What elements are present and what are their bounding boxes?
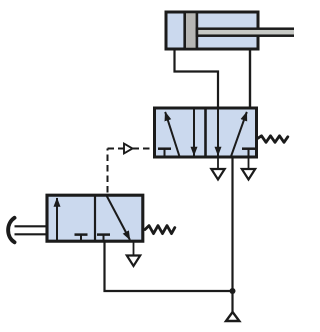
valve V1 left box blocked port T xyxy=(158,149,171,157)
compressed air source triangle xyxy=(226,312,239,321)
valve V2 left box flow arrow up xyxy=(56,198,58,242)
cylinder C1 rod xyxy=(197,29,297,36)
valve V2 position divider xyxy=(94,195,96,241)
valve V2 3/2 body xyxy=(47,195,143,241)
exhaust port 5 of valve V1 xyxy=(211,158,224,180)
cylinder C1 piston xyxy=(185,12,197,49)
valve V2 right box blocked port T xyxy=(97,235,110,242)
junction node supply xyxy=(230,288,236,294)
wire cylinder right port to valve V1 port 2 xyxy=(249,49,251,107)
pilot actuator triangle on valve V1 xyxy=(124,144,133,154)
wire pressure supply to valve V1 port 1 xyxy=(231,158,233,312)
exhaust port 3 of valve V1 xyxy=(242,158,255,180)
pushbutton actuator rod of valve V2 xyxy=(15,226,46,234)
wire cylinder left port to valve V1 port 4 xyxy=(175,49,219,107)
valve V1 position divider xyxy=(204,108,207,157)
pushbutton mushroom head of valve V2 xyxy=(8,218,14,243)
valve V1 return spring xyxy=(258,136,288,143)
valve V1 right box flow arrow diagonal up xyxy=(231,112,247,157)
valve V1 right box blocked port T xyxy=(242,149,255,157)
wire valve V2 port 1 to supply junction xyxy=(105,243,233,292)
exhaust port 3 of valve V2 xyxy=(127,243,140,267)
pilot line dashed from valve V2 output xyxy=(108,149,154,193)
valve V1 5/2 body xyxy=(155,108,257,157)
valve V2 right box flow arrow diagonal down to exhaust xyxy=(107,196,130,240)
valve V1 right box flow arrow down xyxy=(217,109,219,156)
valve V1 left box flow arrow diagonal up xyxy=(165,112,179,157)
cylinder C1 body xyxy=(166,12,258,49)
valve V2 return spring xyxy=(145,226,175,234)
valve V2 left box blocked port T xyxy=(75,235,88,242)
valve V1 left box flow arrow down xyxy=(193,109,195,156)
